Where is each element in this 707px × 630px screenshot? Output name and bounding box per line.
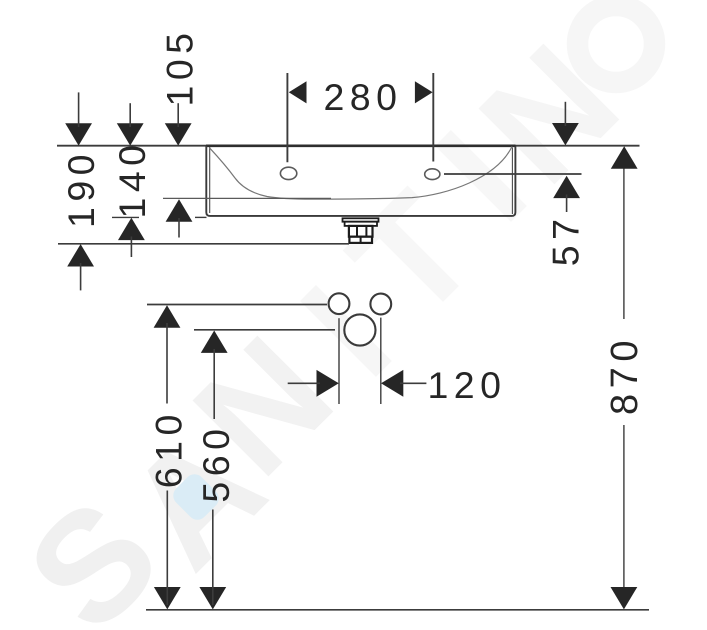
560 leader line (194, 329, 335, 331)
svg-text:190: 190 (60, 149, 102, 228)
watermark cyan drop (169, 470, 223, 524)
basin hole right (425, 169, 440, 180)
dimension texts (60, 27, 646, 502)
arrow down 57 top (552, 123, 579, 145)
basin bowl interior curve (210, 147, 513, 200)
svg-text:140: 140 (111, 139, 153, 218)
arrow down 560 bottom (199, 587, 226, 609)
arrow down 140 top (117, 123, 144, 145)
washbasin outer body (206, 146, 515, 216)
arrow down 870 bottom (611, 587, 638, 609)
svg-text:560: 560 (195, 424, 237, 503)
svg-text:57: 57 (545, 214, 587, 267)
drain body dividers (356, 226, 358, 237)
svg-text:120: 120 (427, 364, 506, 406)
arrow down 190 top (65, 123, 92, 145)
arrow down 610 bottom (154, 587, 181, 609)
arrow up 190 bottom (67, 244, 94, 266)
105 level extension line (163, 197, 331, 199)
svg-text:870: 870 (604, 335, 646, 415)
hole leader to 57 (444, 173, 582, 175)
arrow down 105 top (165, 123, 192, 145)
870 dimension line lower (623, 425, 625, 608)
arrow up 870 top (611, 146, 638, 168)
610 leader line (147, 304, 327, 306)
faucet circle left (329, 293, 350, 314)
faucet circle right (370, 294, 391, 315)
floor line (146, 609, 649, 611)
280 right extension (432, 73, 434, 162)
arrow up 610 top (154, 305, 181, 327)
svg-text:105: 105 (159, 27, 201, 106)
drain nut (349, 237, 372, 243)
basin rim thick top (206, 145, 516, 148)
arrow left 280 (289, 81, 307, 103)
190 bottom reference line (58, 243, 349, 245)
drain body (349, 226, 373, 237)
arrow up 105 bottom (166, 199, 193, 221)
basin inner left wall (209, 147, 211, 213)
arrow right 120 left (317, 370, 339, 397)
arrow left 120 right (381, 370, 403, 397)
faucet circle big (344, 314, 375, 345)
basin inner right wall (511, 148, 513, 215)
140 level extension segments (112, 216, 139, 218)
basin hole left (280, 167, 296, 179)
arrow leader tails (79, 92, 567, 605)
arrow right 280 (415, 81, 433, 103)
drain nut divider (360, 237, 362, 243)
arrow up 560 top (201, 331, 228, 353)
120 right extension (380, 318, 382, 404)
280 left extension (286, 73, 288, 162)
svg-text:280: 280 (323, 76, 402, 118)
watermark O ring (578, 6, 655, 83)
drain flange second (345, 222, 377, 226)
svg-text:610: 610 (148, 409, 190, 488)
arrow up 140 bottom (118, 218, 145, 240)
120 left extension (338, 318, 340, 404)
arrows (65, 81, 637, 609)
drain flange top (343, 218, 379, 221)
top reference line (57, 145, 640, 147)
arrow up 57 bottom (553, 176, 580, 198)
870 dimension line upper (623, 148, 625, 319)
